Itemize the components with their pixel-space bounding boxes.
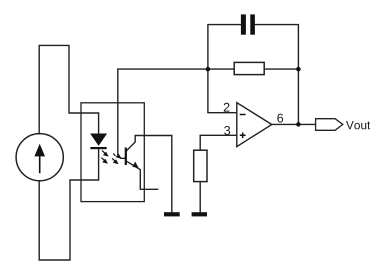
wire feedback right branch down to output node (297, 69, 299, 124)
Vout label (346, 121, 370, 129)
phototransistor emitter arrowhead (132, 162, 138, 168)
pin label 6 (277, 114, 283, 123)
wire phototransistor collector to ground (126, 136, 172, 213)
wire summing junction down to op-amp pin 2 (208, 69, 237, 113)
feedback resistor R1 (234, 62, 264, 74)
resistor R2 (194, 150, 207, 181)
node summing junction (206, 67, 211, 72)
wire LED cathode down-left-down to bottom rail (39, 149, 98, 260)
wire feedback resistor branch (208, 68, 299, 70)
phototransistor Q1 base bar (125, 148, 127, 166)
current source I1 (16, 134, 63, 181)
wire top-left loop from current source to LED anode (39, 45, 98, 133)
op-amp plus sign (240, 133, 246, 139)
ground bar (R2) (192, 212, 207, 216)
op-amp minus sign (240, 114, 246, 116)
node feedback-output (296, 67, 301, 72)
wire summing junction to phototransistor base region (118, 69, 208, 158)
wire phototransistor emitter stub (126, 161, 158, 190)
Vout output flag (316, 119, 343, 131)
ground bar (collector) (164, 212, 180, 216)
pin label 2 (224, 103, 230, 112)
pin label 3 (224, 126, 230, 135)
light arrow 1 (102, 151, 109, 157)
wire op-amp output to Vout flag (272, 123, 316, 125)
light arrow 3 (113, 154, 121, 159)
light arrow 4 (112, 158, 119, 164)
optocoupler U1 package box (81, 103, 144, 202)
light arrow 2 (101, 158, 108, 164)
node output (296, 122, 301, 127)
op-amp U2 triangle (237, 103, 272, 147)
LED D1 of optocoupler (90, 134, 107, 150)
wire op-amp pin 3 to resistor R2 (200, 135, 237, 150)
wire feedback top branch to capacitor (208, 25, 299, 69)
current source arrow (34, 144, 45, 173)
capacitor C1 plates (241, 14, 255, 34)
wire R2 bottom to ground (199, 182, 201, 213)
